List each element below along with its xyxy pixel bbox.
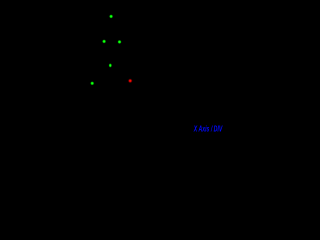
green star dot 3 bbox=[117, 40, 121, 44]
red star dot bbox=[128, 78, 133, 83]
green star dot 1 bbox=[109, 14, 113, 18]
green star dot 4 bbox=[109, 63, 113, 68]
green star dot 2 bbox=[102, 39, 106, 43]
green star dot 5 bbox=[90, 81, 94, 85]
svg-text:X Axis / DIV: X Axis / DIV bbox=[193, 124, 223, 134]
